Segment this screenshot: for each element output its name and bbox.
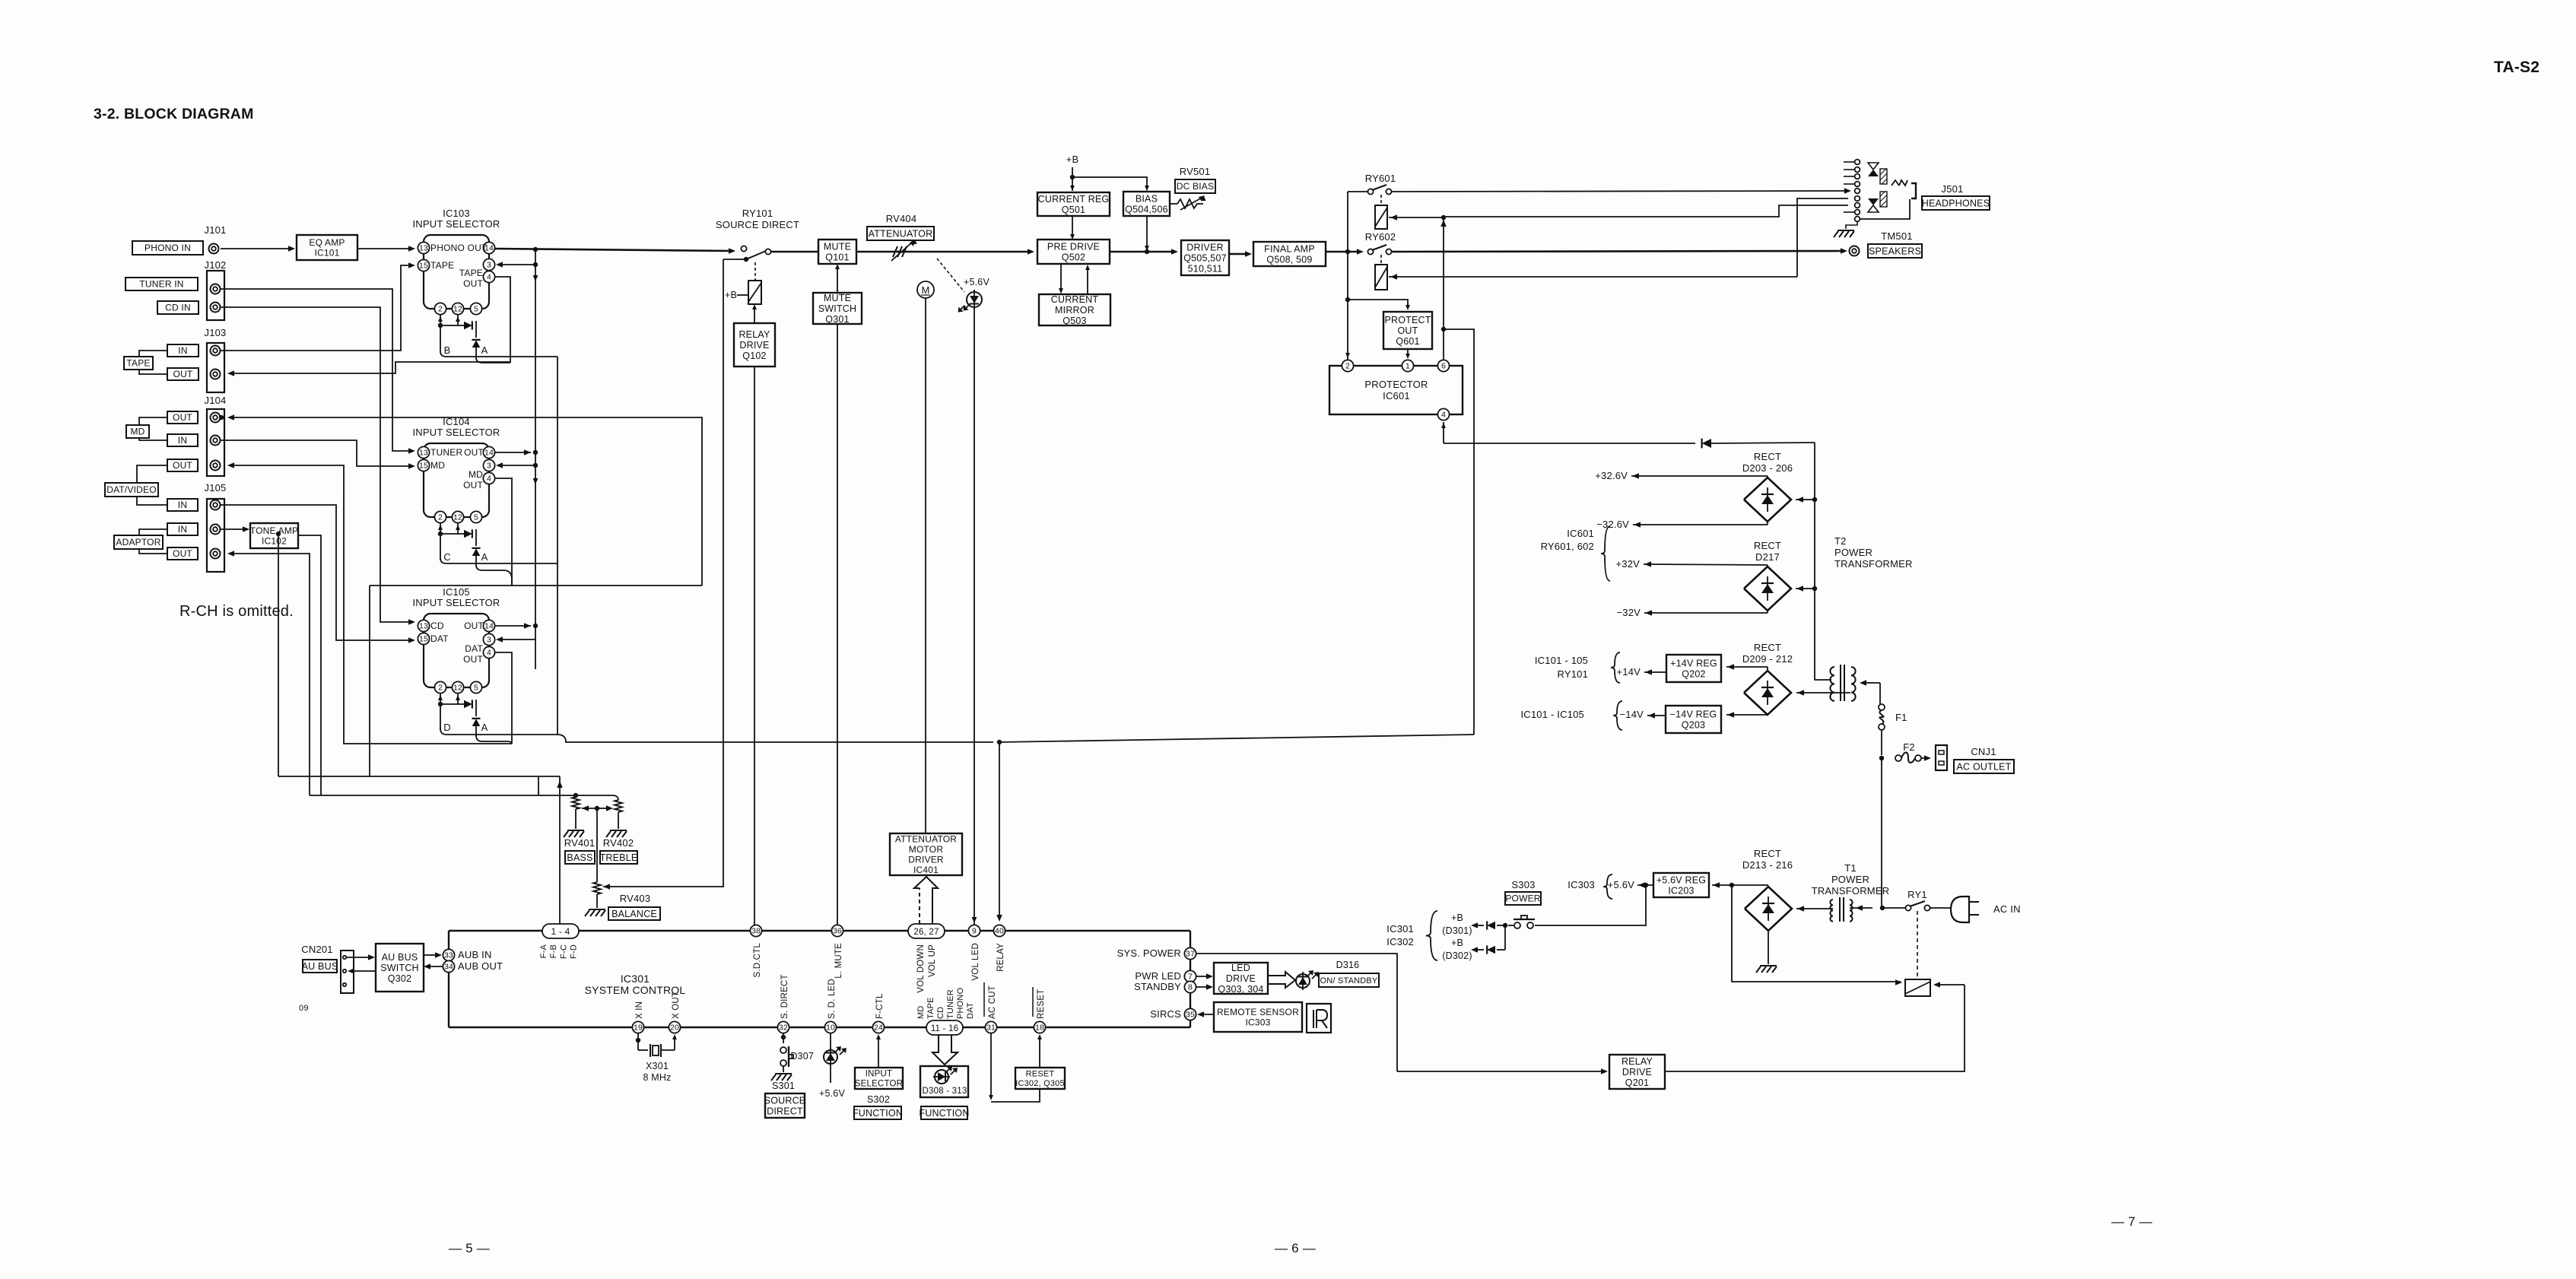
svg-text:CNJ1: CNJ1	[1971, 746, 1996, 757]
svg-text:Q502: Q502	[1062, 252, 1085, 262]
svg-text:Q601: Q601	[1396, 336, 1419, 347]
svg-text:X IN: X IN	[635, 1001, 644, 1019]
svg-text:D308 - 313: D308 - 313	[923, 1087, 967, 1096]
svg-text:DAT/VIDEO: DAT/VIDEO	[106, 484, 157, 495]
potentiometer RV402 TREBLE	[576, 795, 618, 800]
svg-text:FUNCTION: FUNCTION	[853, 1108, 903, 1119]
regulator block +14V REG Q202	[1666, 655, 1721, 682]
svg-text:IN: IN	[178, 345, 187, 356]
svg-text:SPEAKERS: SPEAKERS	[1869, 246, 1921, 256]
pin 9 VOL LED	[968, 925, 980, 936]
svg-text:RECT: RECT	[1754, 451, 1781, 462]
label TAPE	[124, 357, 153, 370]
wire TUNER IN to IC104 pin 13	[221, 289, 411, 451]
svg-text:RECT: RECT	[1754, 848, 1781, 859]
wire bus to IC105 pin 3	[500, 639, 535, 640]
headphone jack switch triangles	[1868, 163, 1879, 170]
svg-text:31: 31	[986, 1024, 996, 1033]
wire rect to -14V REG	[1726, 714, 1768, 716]
label TAPE OUT	[167, 368, 199, 380]
svg-text:IC105: IC105	[443, 586, 470, 598]
svg-text:RV404: RV404	[886, 213, 917, 224]
pin 32 S. DIRECT	[777, 1021, 789, 1033]
op-amp EQ AMP IC101	[297, 235, 357, 260]
wire MD IN to IC104 pin 15	[221, 440, 411, 466]
svg-text:INPUT SELECTOR: INPUT SELECTOR	[412, 427, 500, 438]
wire RESET to pin 18	[1039, 1036, 1040, 1068]
diode network IC103	[440, 315, 441, 325]
pin capsule 26, 27	[908, 924, 945, 938]
svg-text:DC BIAS: DC BIAS	[1177, 181, 1214, 192]
svg-text:RY601, 602: RY601, 602	[1541, 541, 1594, 552]
mirror block CURRENT MIRROR Q503	[1039, 294, 1110, 325]
final block FINAL AMP Q508, 509	[1253, 242, 1326, 266]
svg-text:POWER: POWER	[1834, 547, 1872, 558]
wire Q502 Q503 down	[1060, 264, 1062, 293]
overline RESET	[1032, 987, 1034, 1017]
wire A rail IC105	[476, 735, 512, 744]
svg-text:CURRENT: CURRENT	[1051, 294, 1099, 305]
wire IC103 pin 14 main out	[495, 249, 734, 251]
svg-text:+B: +B	[1451, 912, 1463, 923]
svg-text:−32V: −32V	[1616, 607, 1641, 618]
svg-text:Q202: Q202	[1682, 668, 1705, 679]
svg-text:RV403: RV403	[620, 893, 651, 904]
svg-text:D213 - 216: D213 - 216	[1742, 859, 1793, 871]
svg-text:M: M	[921, 284, 929, 296]
pin 8 STANDBY	[1184, 981, 1196, 992]
relay coil RY1	[1905, 979, 1930, 996]
wire AU BUS SWITCH to pin 33	[424, 954, 438, 956]
svg-text:MUTE: MUTE	[824, 293, 851, 303]
svg-text:IC601: IC601	[1567, 528, 1594, 539]
pin 15 IC105	[418, 633, 429, 644]
svg-text:12: 12	[453, 513, 462, 522]
svg-text:OUT: OUT	[463, 480, 483, 490]
wire pin 31 to RESET bottom	[990, 1033, 992, 1098]
svg-text:SWITCH: SWITCH	[380, 963, 419, 973]
svg-text:X301: X301	[646, 1061, 669, 1071]
selector IC103	[424, 235, 489, 309]
svg-text:3: 3	[487, 462, 491, 471]
pin 3 IC103	[483, 259, 494, 270]
pin 24 F-CTL	[872, 1021, 884, 1033]
svg-text:TM501: TM501	[1881, 230, 1912, 242]
svg-text:F-CTL: F-CTL	[875, 993, 885, 1019]
svg-text:2: 2	[438, 305, 443, 314]
svg-text:S301: S301	[772, 1081, 795, 1091]
wire A rail IC104	[476, 565, 512, 586]
svg-text:13: 13	[419, 449, 428, 458]
protect block PROTECT OUT Q601	[1383, 312, 1432, 349]
wire EQ AMP to IC103 pin 13	[357, 248, 411, 249]
wire IC103 pin 4 to TAPE OUT jack	[232, 277, 510, 373]
svg-text:5: 5	[474, 305, 478, 314]
svg-text:Q503: Q503	[1062, 316, 1086, 326]
svg-text:F-D: F-D	[570, 944, 579, 959]
wire MUTE Q101 to RV404	[856, 251, 896, 253]
wire bus to IC103 pin 3	[533, 262, 538, 267]
label ADAPTOR	[114, 535, 163, 549]
svg-text:MD: MD	[130, 427, 145, 437]
driver block DRIVER Q505,507 510,511	[1181, 240, 1229, 275]
svg-text:REMOTE SENSOR: REMOTE SENSOR	[1217, 1007, 1299, 1017]
pin 14 IC104	[483, 446, 494, 458]
overline AC CUT	[983, 982, 985, 1017]
svg-text:VOL UP: VOL UP	[928, 944, 937, 977]
pin 35 SIRCS	[1184, 1008, 1196, 1020]
svg-text:S.D.CTL: S.D.CTL	[753, 943, 762, 978]
svg-text:R-CH is omitted.: R-CH is omitted.	[179, 603, 294, 620]
svg-text:IC401: IC401	[913, 865, 939, 875]
headphone jack J501 contacts	[1855, 160, 1860, 165]
label ADAPTOR OUT	[167, 547, 198, 560]
mute block MUTE Q101	[818, 240, 856, 264]
wire T2 primary from F1	[1862, 682, 1880, 684]
relay coil RY101	[748, 281, 761, 304]
wire ADAPTOR bracket	[139, 529, 167, 535]
pin 4 PROTECTOR	[1437, 408, 1449, 420]
label ON/ STANDBY	[1319, 973, 1379, 987]
svg-text:15: 15	[419, 635, 428, 644]
wire down to transformer T2	[1815, 443, 1831, 680]
pin 12 IC103	[452, 303, 463, 314]
svg-text:D203 - 206: D203 - 206	[1742, 462, 1793, 474]
wire AC main vertical	[1881, 758, 1882, 908]
wire B rail IC103	[440, 351, 557, 357]
svg-text:DAT: DAT	[430, 633, 449, 644]
svg-text:INPUT: INPUT	[866, 1070, 893, 1079]
hollow arrow vol up/down to IC401	[919, 888, 920, 924]
pin 15 IC104	[418, 459, 429, 471]
svg-text:510,511: 510,511	[1188, 263, 1223, 274]
svg-text:+14V: +14V	[1616, 666, 1641, 678]
wire PROTECT OUT to pin 1	[1407, 349, 1409, 357]
headphone jack insulator hatches	[1880, 169, 1887, 184]
wire D rail IC105	[440, 728, 557, 735]
fuse F2 to AC outlet	[1879, 756, 1884, 760]
svg-text:2: 2	[438, 684, 443, 693]
wire sys power to RELAY DRIVE	[1397, 1071, 1605, 1072]
wire pin 4 from rect bridge	[1443, 422, 1444, 443]
svg-text:VOL DOWN: VOL DOWN	[916, 944, 926, 993]
pin 36 L.MUTE	[831, 925, 843, 936]
svg-text:MD: MD	[469, 469, 483, 480]
wire protector junction to pin 2	[1347, 252, 1348, 360]
LED block D308 - 313	[920, 1066, 968, 1097]
svg-text:TAPE: TAPE	[430, 260, 454, 271]
pin 4 IC103	[483, 271, 494, 282]
svg-text:F2: F2	[1903, 741, 1915, 753]
svg-text:POWER: POWER	[1505, 893, 1540, 904]
wire selector chain bus vertical	[557, 357, 558, 735]
svg-text:35: 35	[1186, 1011, 1195, 1020]
wire DAT/VIDEO bracket	[137, 465, 167, 483]
wire FINAL AMP output	[1326, 251, 1361, 253]
crystal X301 8 MHz	[637, 1033, 639, 1050]
wire IC105 A rail to DAT/VIDEO OUT jack	[232, 465, 512, 744]
svg-text:BIAS: BIAS	[1136, 193, 1158, 204]
wire CN201 to AU BUS SWITCH	[347, 957, 371, 958]
svg-text:(D302): (D302)	[1442, 951, 1472, 961]
svg-text:F1: F1	[1895, 712, 1907, 723]
svg-text:AUB OUT: AUB OUT	[458, 960, 503, 972]
wire REMOTE SENSOR to pin 35	[1200, 1014, 1214, 1015]
svg-text:RECT: RECT	[1754, 642, 1781, 653]
svg-text:CD: CD	[936, 1007, 945, 1019]
svg-text:SOURCE DIRECT: SOURCE DIRECT	[716, 219, 799, 230]
svg-text:IC301: IC301	[1386, 923, 1414, 935]
svg-text:+5.6V REG: +5.6V REG	[1656, 874, 1706, 885]
svg-text:7: 7	[1188, 973, 1193, 982]
svg-text:IN: IN	[178, 524, 187, 535]
pin 20 X OUT	[669, 1021, 680, 1033]
svg-text:19: 19	[634, 1024, 643, 1033]
svg-text:LED: LED	[1231, 963, 1250, 973]
svg-text:PHONO: PHONO	[956, 987, 965, 1019]
svg-text:TA-S2: TA-S2	[2494, 59, 2539, 76]
svg-text:Q504,506: Q504,506	[1125, 204, 1168, 214]
svg-text:12: 12	[453, 684, 462, 693]
regulator block CURRENT REG Q501	[1037, 192, 1110, 216]
ground rect D213	[1768, 931, 1769, 964]
regulator block +5.6V REG IC203	[1653, 873, 1709, 897]
wire RY602 to speakers	[1392, 251, 1844, 252]
wire headphone top contacts	[1857, 162, 1858, 176]
svg-text:HEADPHONES: HEADPHONES	[1922, 198, 1990, 208]
wire -14V REG output	[1647, 715, 1666, 716]
wire CURRENT REG to PRE DRIVE	[1072, 216, 1073, 238]
pin 33 AUB IN	[443, 949, 454, 960]
svg-text:Q203: Q203	[1682, 719, 1705, 730]
svg-text:15: 15	[419, 462, 428, 471]
svg-text:+B: +B	[1451, 938, 1463, 948]
label DAT/VIDEO	[105, 483, 158, 497]
svg-text:ADAPTOR: ADAPTOR	[116, 537, 160, 547]
wire relay drive loop	[1665, 985, 1965, 1071]
wire final amp junction up to RY601	[1347, 192, 1348, 252]
svg-text:CURRENT REG: CURRENT REG	[1038, 194, 1110, 205]
label DAT/VIDEO IN	[167, 499, 198, 511]
label DAT/VIDEO OUT	[167, 459, 198, 471]
svg-text:T1: T1	[1844, 862, 1857, 874]
pin 38 S.D.CTL	[750, 925, 761, 936]
svg-text:+5.6V: +5.6V	[964, 277, 989, 287]
wire rect D213 to +5.6V REG	[1712, 884, 1768, 886]
svg-text:INPUT SELECTOR: INPUT SELECTOR	[412, 597, 500, 608]
wire RV401 RV402 wipers	[582, 805, 589, 811]
diode D302	[1504, 925, 1506, 950]
wire MD bracket	[139, 417, 167, 425]
svg-text:OUT: OUT	[173, 369, 193, 379]
wire relay drive bus vertical	[1443, 217, 1444, 360]
label ADAPTOR IN	[167, 523, 198, 535]
wire to PROTECT OUT	[1348, 300, 1408, 309]
pin 19 X IN	[632, 1021, 643, 1033]
svg-text:RESET: RESET	[1037, 989, 1046, 1019]
svg-text:J104: J104	[205, 395, 227, 406]
svg-text:D: D	[443, 722, 451, 733]
svg-text:9: 9	[972, 927, 977, 936]
svg-text:2: 2	[438, 513, 443, 522]
wire SYS POWER to relay drive	[1196, 954, 1397, 1071]
svg-text:RELAY: RELAY	[1622, 1056, 1653, 1067]
svg-text:+B: +B	[1066, 154, 1079, 165]
pin 18 RESET	[1034, 1021, 1045, 1033]
svg-text:TUNER: TUNER	[430, 447, 462, 458]
svg-text:+14V REG: +14V REG	[1670, 658, 1717, 668]
wire relay coil supply	[1732, 885, 1901, 982]
svg-text:IC303: IC303	[1568, 879, 1595, 890]
pin 14 IC103	[483, 242, 494, 253]
predrive block PRE DRIVE Q502	[1037, 240, 1110, 264]
svg-text:T2: T2	[1834, 535, 1847, 547]
svg-text:DRIVE: DRIVE	[739, 340, 769, 351]
svg-text:D217: D217	[1755, 551, 1780, 563]
svg-text:5: 5	[474, 513, 478, 522]
svg-text:S. DIRECT: S. DIRECT	[780, 974, 789, 1019]
svg-text:AC IN: AC IN	[1993, 903, 2021, 915]
svg-text:MD: MD	[916, 1005, 926, 1019]
svg-text:RY1: RY1	[1907, 889, 1927, 900]
driver block RELAY DRIVE Q102	[734, 323, 775, 367]
wire +14V REG output	[1644, 671, 1666, 673]
wire S303 to diodes	[1508, 925, 1514, 926]
terminal TM501 SPEAKERS	[1850, 246, 1860, 256]
switch block INPUT SELECTOR S302	[855, 1068, 903, 1089]
svg-text:DAT: DAT	[465, 643, 483, 654]
svg-text:AU BUS: AU BUS	[302, 961, 338, 972]
svg-text:AUB IN: AUB IN	[458, 949, 492, 960]
svg-text:RY602: RY602	[1365, 231, 1396, 243]
pin 37 SYS. POWER	[1184, 947, 1196, 959]
svg-text:SOURCE: SOURCE	[764, 1095, 806, 1106]
svg-text:TRANSFORMER: TRANSFORMER	[1834, 558, 1913, 570]
svg-text:IC203: IC203	[1668, 885, 1694, 896]
svg-text:RV501: RV501	[1180, 166, 1211, 177]
svg-text:PRE DRIVE: PRE DRIVE	[1047, 241, 1100, 252]
svg-text:TONE AMP: TONE AMP	[250, 525, 298, 536]
potentiometer RV403 BALANCE	[593, 882, 601, 894]
pin 3 IC105	[483, 633, 494, 645]
svg-text:Q101: Q101	[825, 252, 849, 262]
diode protector feed	[1702, 439, 1711, 448]
svg-text:33: 33	[444, 951, 453, 960]
remote control icon	[1307, 1004, 1331, 1033]
switch block AU BUS SWITCH Q302	[376, 944, 424, 992]
regulator block -14V REG Q203	[1666, 706, 1721, 733]
svg-text:1 - 4: 1 - 4	[551, 926, 570, 937]
svg-text:X OUT: X OUT	[672, 992, 681, 1019]
svg-text:(D301): (D301)	[1442, 925, 1472, 936]
LED D316	[1296, 974, 1310, 988]
pin 13 IC103	[418, 242, 429, 253]
wire RV404 to PRE DRIVE	[907, 251, 1031, 253]
label CD IN	[157, 301, 199, 314]
svg-text:MD: MD	[430, 460, 445, 471]
svg-text:4: 4	[487, 474, 491, 484]
svg-text:TUNER IN: TUNER IN	[139, 279, 183, 290]
svg-text:TAPE: TAPE	[459, 268, 483, 278]
svg-text:OUT: OUT	[464, 447, 484, 458]
pin 31 AC CUT	[985, 1021, 996, 1033]
svg-text:TREBLE: TREBLE	[600, 852, 638, 863]
system control IC301 outline	[449, 930, 542, 931]
svg-text:ON/ STANDBY: ON/ STANDBY	[1320, 976, 1378, 985]
wire vol LED to pin 9	[974, 307, 975, 925]
svg-text:RESET: RESET	[1026, 1070, 1055, 1079]
pin 12 IC104	[452, 511, 463, 522]
svg-text:F-C: F-C	[559, 944, 568, 959]
svg-text:CN201: CN201	[301, 944, 332, 955]
pin 7 PWR LED	[1184, 970, 1196, 982]
bias block BIAS Q504,506	[1123, 192, 1170, 216]
pin 14 IC105	[483, 620, 494, 631]
svg-text:PROTECT: PROTECT	[1384, 315, 1431, 325]
driver block LED DRIVE Q303, 304	[1214, 963, 1268, 994]
selector IC105	[424, 614, 489, 687]
svg-text:36: 36	[833, 927, 842, 936]
pin capsule 1 - 4	[542, 924, 579, 938]
wire pin 8 to LED DRIVE	[1196, 986, 1209, 988]
pin 3 IC104	[483, 459, 494, 471]
svg-text:OUT: OUT	[173, 548, 192, 559]
pin 40 RELAY	[993, 925, 1005, 936]
svg-text:RV402: RV402	[603, 837, 634, 849]
svg-text:SWITCH: SWITCH	[818, 303, 857, 314]
svg-text:OUT: OUT	[173, 460, 192, 471]
label MD OUT	[167, 411, 198, 424]
svg-text:INPUT SELECTOR: INPUT SELECTOR	[412, 218, 500, 230]
svg-text:Q102: Q102	[742, 351, 766, 361]
svg-text:8 MHz: 8 MHz	[643, 1072, 671, 1083]
svg-text:RELAY: RELAY	[996, 943, 1005, 972]
wire RY1 dashed to coil	[1917, 911, 1918, 978]
svg-text:37: 37	[1186, 950, 1195, 959]
svg-text:BASS: BASS	[567, 852, 592, 863]
pin 6 PROTECTOR	[1437, 360, 1449, 371]
diode network IC105	[440, 693, 441, 704]
svg-text:Q303, 304: Q303, 304	[1218, 984, 1263, 995]
wire S302 to pin 24	[878, 1036, 879, 1068]
wire +B to BIAS	[1072, 177, 1147, 190]
pin 12 IC105	[452, 681, 463, 693]
svg-text:SELECTOR: SELECTOR	[855, 1080, 903, 1089]
wire motor to IC401	[925, 298, 926, 833]
svg-text:+32.6V: +32.6V	[1595, 470, 1628, 481]
svg-text:4: 4	[1441, 411, 1446, 420]
svg-text:DIRECT: DIRECT	[767, 1106, 803, 1116]
svg-text:20: 20	[670, 1024, 679, 1033]
wire TAPE IN to IC103 pin 15	[221, 265, 411, 351]
mute switch block MUTE SWITCH Q301	[813, 293, 862, 324]
wire RY1 to AC plug	[1930, 907, 1951, 909]
svg-text:18: 18	[1035, 1024, 1044, 1033]
svg-text:+5.6V: +5.6V	[1608, 879, 1634, 890]
svg-text:RV401: RV401	[564, 837, 596, 849]
wire headphone sleeve	[1860, 199, 1910, 219]
wire rect D203 input	[1796, 499, 1815, 500]
svg-text:TAPE: TAPE	[126, 358, 150, 369]
svg-text:C: C	[443, 551, 451, 563]
wire RELAY DRIVE to relay coil	[754, 306, 755, 323]
svg-text:13: 13	[419, 622, 428, 631]
svg-text:38: 38	[751, 927, 761, 936]
svg-text:J101: J101	[205, 224, 227, 236]
diode D301	[1497, 925, 1505, 926]
pin 34 AUB OUT	[443, 960, 454, 972]
svg-text:A: A	[481, 344, 488, 356]
